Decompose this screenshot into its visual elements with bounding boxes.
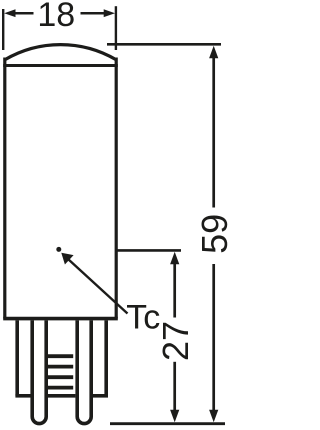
base bottom segment left	[15, 394, 30, 398]
lamp dome arc	[5, 45, 116, 60]
left pin loop	[32, 320, 46, 423]
bottom baseline	[110, 422, 225, 425]
base crimp bar 4	[47, 386, 74, 390]
dimension 27: bottom arrowhead	[170, 410, 179, 423]
dimension 59: lower shaft	[212, 264, 215, 411]
dimension 27: lower shaft	[173, 362, 176, 411]
lamp body left side	[3, 58, 6, 319]
svg-text:18: 18	[37, 0, 75, 34]
Tc leader arrowhead	[61, 253, 73, 265]
Tc point dot	[56, 247, 61, 252]
dimension 59: bottom arrowhead	[209, 410, 218, 423]
lamp dome seam line	[3, 64, 118, 67]
dimension 27: top arrowhead	[170, 252, 179, 264]
Tc leader line	[65, 256, 128, 313]
lamp body bottom edge	[3, 317, 118, 321]
Tc level line	[116, 249, 181, 252]
svg-text:Tc: Tc	[126, 299, 160, 337]
dimension 27: upper shaft	[173, 263, 176, 318]
dimension 59: upper shaft	[212, 57, 215, 208]
dimension 59: top arrowhead	[209, 46, 218, 59]
base crimp bar 1	[47, 354, 74, 358]
dimension 18: right extension line	[115, 6, 117, 50]
base bottom segment middle	[48, 394, 76, 398]
base crimp bar 3	[47, 375, 74, 379]
dimension 18: right shaft	[81, 12, 106, 15]
base left wall	[15, 320, 19, 395]
dimension 18: right arrowhead	[104, 9, 115, 17]
base bottom segment right	[93, 394, 108, 398]
dimension 18: left extension line	[2, 9, 4, 50]
svg-text:59: 59	[194, 214, 228, 254]
dimension 18: left shaft	[15, 12, 34, 15]
svg-text:27: 27	[155, 321, 196, 361]
top reference line (lamp apex level)	[107, 43, 221, 46]
lamp body right side	[115, 58, 118, 319]
base crimp bar 2	[47, 365, 74, 369]
base right wall	[104, 320, 108, 395]
right pin loop	[77, 320, 91, 423]
dimension 18: left arrowhead	[4, 9, 15, 17]
